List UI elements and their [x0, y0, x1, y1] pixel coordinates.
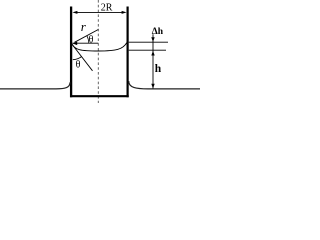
svg-text:θ: θ — [89, 34, 94, 45]
svg-text:Δh: Δh — [152, 27, 164, 37]
svg-text:2R: 2R — [101, 3, 113, 14]
svg-text:h: h — [155, 63, 162, 75]
svg-text:θ: θ — [76, 60, 81, 71]
